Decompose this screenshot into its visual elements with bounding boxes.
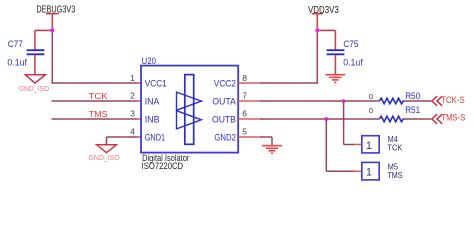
buffer triangle B — [177, 111, 202, 129]
capacitor C77 — [7, 39, 44, 68]
pin numbers right — [242, 73, 247, 136]
ground (C75) — [325, 75, 345, 83]
wire junction to M4 — [344, 101, 362, 145]
svg-text:ISO7220CD: ISO7220CD — [142, 161, 184, 172]
svg-text:GND_ISO: GND_ISO — [89, 155, 121, 162]
pin names left — [145, 78, 167, 143]
svg-text:R50: R50 — [405, 91, 420, 101]
ground GND_ISO (C77) — [19, 75, 50, 93]
svg-text:U20: U20 — [142, 56, 157, 66]
resistor R50 — [369, 91, 420, 104]
junction (VDD rail) — [315, 28, 319, 32]
svg-text:0.1uf: 0.1uf — [7, 58, 27, 68]
svg-text:TMS: TMS — [89, 109, 108, 119]
wire branch to C75 — [317, 30, 336, 49]
svg-text:GND1: GND1 — [145, 132, 165, 143]
part labels — [142, 153, 190, 172]
svg-text:1: 1 — [130, 73, 135, 83]
svg-text:R51: R51 — [405, 105, 420, 115]
svg-text:7: 7 — [242, 91, 247, 101]
svg-text:TMS: TMS — [387, 171, 402, 180]
svg-text:INB: INB — [145, 114, 160, 125]
svg-text:GND_ISO: GND_ISO — [19, 86, 50, 93]
wire TCK to pin 2 — [52, 100, 137, 102]
svg-text:4: 4 — [130, 126, 135, 136]
port TMS-S — [432, 112, 466, 124]
svg-text:TCK-S: TCK-S — [441, 95, 465, 105]
svg-text:3: 3 — [130, 109, 135, 119]
svg-text:VCC1: VCC1 — [145, 78, 167, 89]
pin names right — [212, 78, 236, 143]
svg-text:C75: C75 — [343, 39, 358, 49]
wire pin1 to DEBUG3V3 rail — [52, 30, 141, 84]
svg-text:OUTA: OUTA — [212, 96, 236, 107]
pin numbers left — [130, 73, 135, 136]
svg-text:6: 6 — [242, 109, 247, 119]
wire pin 8 to VDD3V3 rail — [238, 30, 317, 84]
svg-text:5: 5 — [242, 126, 247, 136]
svg-text:1: 1 — [366, 166, 372, 178]
isolation barrier — [185, 75, 194, 145]
power port VDD3V3 — [308, 5, 339, 31]
wire pin 6 / OUTB row — [238, 118, 431, 120]
svg-text:1: 1 — [366, 140, 372, 152]
resistor R51 — [369, 105, 420, 122]
ground (pin 5) — [262, 146, 282, 154]
port TCK-S — [432, 95, 465, 106]
wire pin 7 / OUTA row — [238, 100, 431, 102]
svg-text:C77: C77 — [8, 39, 23, 49]
testpoint M4 — [362, 135, 403, 153]
svg-text:OUTB: OUTB — [212, 114, 236, 125]
buffer triangle A — [177, 92, 202, 110]
junction OUTA row — [342, 99, 346, 103]
svg-text:INA: INA — [145, 96, 160, 107]
svg-text:0: 0 — [369, 106, 373, 115]
svg-text:0: 0 — [369, 92, 373, 101]
testpoint M5 — [362, 162, 403, 180]
ground GND_ISO (pin 4) — [89, 145, 121, 162]
power port DEBUG3V3 — [36, 4, 75, 30]
svg-text:TCK: TCK — [387, 144, 403, 153]
svg-text:2: 2 — [130, 91, 135, 101]
svg-text:GND2: GND2 — [214, 132, 236, 143]
svg-text:TMS-S: TMS-S — [441, 112, 465, 122]
wire C75 to ground — [334, 55, 336, 74]
svg-text:8: 8 — [242, 73, 247, 83]
junction OUTB row — [324, 117, 328, 121]
wire pin 5 to ground — [238, 137, 272, 145]
IC U20 digital isolator box — [141, 56, 238, 153]
svg-text:VCC2: VCC2 — [214, 78, 236, 89]
junction (DEBUG rail) — [50, 28, 54, 32]
wire C77 to ground — [34, 55, 36, 74]
wire TMS to pin 3 — [52, 118, 137, 120]
svg-text:0.1uf: 0.1uf — [343, 58, 363, 68]
capacitor C75 — [327, 39, 364, 68]
wire pin 4 to ground — [107, 137, 142, 144]
svg-text:TCK: TCK — [89, 91, 108, 101]
wire branch to C77 — [35, 30, 53, 49]
wire junction to M5 — [326, 119, 362, 171]
